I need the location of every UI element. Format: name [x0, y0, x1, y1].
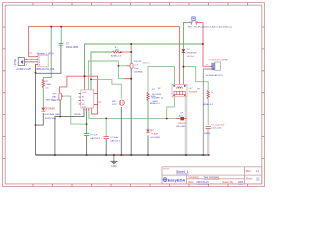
wire C4 bottom — [105, 139, 107, 155]
svg-text:Sheet:: Sheet: — [246, 177, 253, 180]
svg-text:STATUS: STATUS — [178, 122, 187, 125]
svg-text:10K: 10K — [115, 49, 119, 51]
buzzer B1 — [152, 85, 198, 103]
title block — [162, 167, 262, 184]
svg-text:CAP-D6.3: CAP-D6.3 — [110, 140, 121, 143]
svg-text:LS? 8R: LS? 8R — [14, 58, 17, 66]
border ticks top — [3, 3, 265, 187]
svg-text:40V-1A: 40V-1A — [187, 55, 195, 58]
header P1 — [30, 52, 55, 71]
wire LED1 bottom — [36, 113, 44, 125]
wire green buzzer staircase — [167, 97, 175, 118]
wire red amp loop — [59, 76, 97, 114]
svg-text:LED-3MM: LED-3MM — [150, 137, 160, 139]
wire green R4 to LED2 — [147, 100, 149, 129]
diode D1 — [182, 49, 198, 58]
wire C2 bottom — [130, 68, 132, 155]
wire green drop to C4 — [105, 118, 107, 136]
op-amp U1 — [74, 90, 102, 116]
capacitor C1 — [59, 42, 79, 49]
svg-text:OUT_1: OUT_1 — [143, 63, 151, 65]
svg-text:TH-BZ: TH-BZ — [152, 101, 159, 103]
wire red drop to buzzer — [179, 27, 181, 85]
wire gnd rail to IC pin — [55, 111, 84, 155]
LED1 power — [42, 88, 61, 121]
svg-text:GND: GND — [111, 165, 117, 168]
wire LED2 bottom — [147, 135, 149, 155]
svg-text:REV:: REV: — [246, 170, 252, 173]
wire GND bus — [36, 154, 210, 156]
resistor R2 — [42, 80, 51, 90]
microphone MK1 — [112, 100, 125, 106]
ground — [111, 155, 118, 168]
svg-text:FLASH: FLASH — [151, 132, 158, 135]
LED3 status — [176, 113, 187, 128]
wire C1 bottom gnd — [36, 45, 61, 73]
capacitor C2 polarized — [130, 61, 143, 73]
wire header pin4 gnd drop — [34, 65, 36, 156]
svg-text:ACT: ACT — [179, 115, 184, 118]
supercap C6 — [206, 59, 228, 76]
svg-text:(0603): (0603) — [204, 133, 210, 135]
resistor R1 — [111, 47, 122, 57]
svg-text:(4X7MM): (4X7MM) — [134, 71, 143, 73]
wire green VCC to R2 — [43, 27, 51, 80]
svg-text:(PWR WM): (PWR WM) — [45, 118, 56, 120]
switch SW1 — [188, 17, 233, 29]
LED2 — [146, 129, 160, 139]
svg-text:POWER: POWER — [46, 108, 55, 110]
speaker LS1 — [14, 58, 32, 72]
wire green VCC to C1 — [60, 27, 62, 44]
svg-text:5 6 8: 5 6 8 — [82, 92, 86, 94]
capacitor C5 — [204, 124, 225, 135]
wire green IC pin bottom long net — [89, 111, 176, 119]
wire pot bottom — [59, 100, 61, 117]
wire green C2 top — [130, 44, 132, 64]
wire C3 bottom — [86, 136, 88, 155]
wire green IC pin to R1 — [91, 52, 112, 90]
svg-text:MLT-8530: MLT-8530 — [152, 94, 162, 96]
border ticks right — [262, 27, 265, 158]
wire green IC mid net — [88, 61, 118, 90]
wire switch to supercap — [198, 23, 212, 67]
svg-text:TITLE:: TITLE: — [163, 168, 170, 170]
svg-text:AC3W-2 0.25: AC3W-2 0.25 — [17, 68, 32, 71]
sheet border frame — [3, 3, 265, 187]
svg-text:EasyEDA: EasyEDA — [168, 177, 185, 182]
resistor R5 — [197, 89, 214, 106]
wire green branch to R5 — [183, 67, 208, 91]
svg-text:CL21-100n: CL21-100n — [211, 128, 222, 130]
svg-text:C?+Cap0.1uF: C?+Cap0.1uF — [211, 124, 225, 126]
wire buzzer gnd wide — [185, 97, 188, 155]
svg-text:2019-04-21: 2019-04-21 — [197, 181, 210, 184]
svg-text:8002A: 8002A — [74, 113, 81, 116]
wire green IC pin to C3 — [86, 111, 88, 134]
svg-text:1N5819W: 1N5819W — [187, 53, 198, 55]
svg-text:100uF 0805: 100uF 0805 — [66, 47, 79, 49]
capacitor C3 — [84, 134, 101, 140]
wire VCC rail — [29, 27, 180, 57]
svg-text:R15 WL: R15 WL — [134, 61, 142, 63]
svg-text:LED-3MM_RED: LED-3MM_RED — [44, 114, 60, 116]
wire big green net to supercap — [85, 44, 203, 76]
svg-text:LED-0805: LED-0805 — [176, 126, 186, 128]
wire C5 bottom wide — [207, 129, 209, 155]
svg-text:SUPERCAP-D10: SUPERCAP-D10 — [206, 74, 224, 77]
border ticks bottom — [33, 184, 248, 187]
svg-text:0x00: 0x00 — [238, 181, 244, 184]
wire red lead C2 left — [127, 65, 131, 67]
wire speaker plus — [28, 58, 36, 60]
svg-text:Speaker_1 WTH: Speaker_1 WTH — [36, 52, 53, 55]
wire resistor R1 lead — [120, 51, 131, 53]
wire green IC out to mic2 — [91, 79, 121, 98]
svg-text:AXIAL-0.3: AXIAL-0.3 — [111, 54, 122, 57]
svg-text:KEY_TH_SK-12D02-L4-W4.0-LS(2.4: KEY_TH_SK-12D02-L4-W4.0-LS(2.4 R&C)+1 — [188, 27, 233, 29]
wire green pot wiper — [64, 96, 87, 124]
svg-text:C? 1F/5.5V SUPER: C? 1F/5.5V SUPER — [209, 59, 229, 61]
svg-text:C? 100n: C? 100n — [110, 137, 119, 139]
svg-text:Date:: Date: — [188, 181, 194, 184]
border ticks left — [3, 27, 6, 158]
wire green branch to C2 — [118, 66, 126, 79]
svg-text:CAP-D6.3: CAP-D6.3 — [90, 137, 101, 140]
svg-text:AXIAL-0.3: AXIAL-0.3 — [203, 103, 213, 106]
trimmer RP1 — [52, 93, 64, 102]
svg-text:Sheet_1: Sheet_1 — [176, 170, 189, 174]
wire speaker minus — [28, 61, 36, 63]
wire red jog to C2 gnd — [124, 78, 131, 80]
wire red branch to IC pin — [84, 76, 86, 90]
wire green R4 chain top — [148, 67, 175, 93]
svg-text:BUZZER-12: BUZZER-12 — [152, 97, 164, 99]
svg-text:Company:: Company: — [188, 176, 199, 179]
capacitor C4 — [104, 137, 121, 143]
wire supercap gnd — [203, 69, 211, 155]
svg-text:10uF: 10uF — [134, 68, 139, 70]
svg-text:HDR-M-2.54_1X4: HDR-M-2.54_1X4 — [36, 69, 55, 71]
svg-text:510R: 510R — [45, 84, 51, 86]
resistor R4 — [143, 63, 161, 105]
svg-text:4 3 2 1: 4 3 2 1 — [83, 110, 89, 112]
svg-text:4 3 2: 4 3 2 — [82, 106, 86, 108]
svg-text:C? 1uF: C? 1uF — [90, 135, 98, 137]
wire green switch to diode chain — [183, 23, 190, 85]
svg-text:Your Company: Your Company — [204, 176, 221, 179]
svg-text:BUZZER: BUZZER — [189, 91, 198, 93]
wire green R5 to C5 — [207, 99, 209, 125]
wire mic2 bottom — [120, 107, 122, 155]
svg-text:Drawn By:: Drawn By: — [223, 181, 234, 184]
